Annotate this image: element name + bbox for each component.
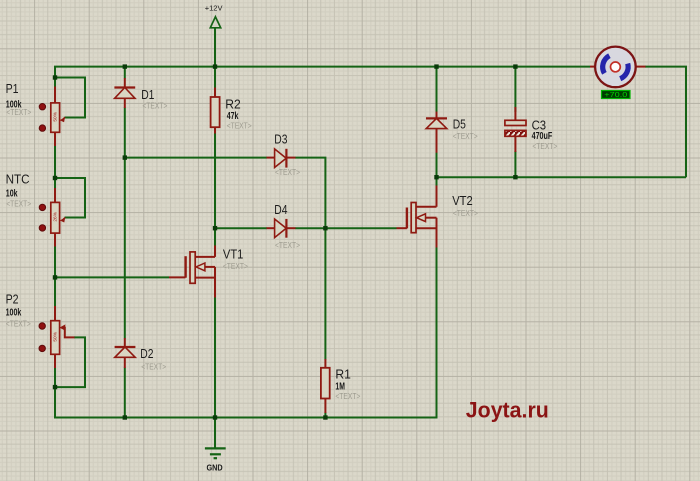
svg-text:<TEXT>: <TEXT> [275,168,300,177]
diode D2 [115,338,136,368]
wire GND stub [214,418,216,449]
wire motor right loop [645,67,686,178]
mosfet VT1 [169,246,215,298]
junction node gate (55,277.4) [53,275,57,279]
wire C3 bottom to bus2 [514,151,516,177]
wire P2 wiper loop [55,337,85,387]
wire D3 anode row [125,157,267,159]
diode D5 [426,112,447,153]
wire D4 cathode to VT2 gate [295,227,396,229]
junction node (124.8,417.5) [123,415,127,419]
svg-text:<TEXT>: <TEXT> [453,132,478,141]
junction node (215,66.6) [213,64,217,68]
junction node (55,178) [53,176,57,180]
wire ground bus [55,247,437,418]
motor speed display +70.0 [602,91,631,100]
svg-text:10k: 10k [6,187,18,199]
junction node (124.8,66.6) [123,64,127,68]
wire NTC wiper loop [55,178,85,218]
wire left rail NTC to P2 [54,246,56,307]
wire center rail R2 to VT1 drain [214,133,216,246]
junction node (515.4,177.2) [513,175,517,179]
wire +12V rail down to top bus and R2 [214,28,216,88]
junction node (325.4,417.5) [323,415,327,419]
svg-text:D5: D5 [453,117,466,131]
svg-text:VT2: VT2 [452,194,473,208]
svg-text:50%: 50% [53,111,59,121]
svg-text:1M: 1M [335,380,345,392]
ground symbol [205,418,226,473]
svg-text:50%: 50% [53,331,59,341]
junction node (124.8,157.6) [123,155,127,159]
svg-text:<TEXT>: <TEXT> [141,363,166,372]
svg-text:D4: D4 [274,203,287,217]
wire top +12V bus with left corner down to node A [55,67,590,78]
diode D3 [267,149,296,168]
wire C3 top pin [514,67,516,112]
svg-text:<TEXT>: <TEXT> [6,199,31,208]
wire VT2 drain column [436,177,438,185]
wire P1 wiper loop [55,78,85,118]
wire VT1 source to ground bus [214,298,216,418]
junction node A (55,77.5) [53,75,57,79]
wire R1 bottom to ground bus [324,413,326,418]
junction node (215,228.2) [213,226,217,230]
svg-text:P1: P1 [6,82,19,96]
wire D5 bottom to bus2 [436,153,438,178]
wire VT1 gate row [55,276,169,278]
svg-text:Joyta.ru: Joyta.ru [466,397,549,422]
svg-text:GND: GND [207,462,223,472]
svg-text:<TEXT>: <TEXT> [6,320,31,329]
svg-text:470uF: 470uF [532,130,553,142]
junction node (55,387.1) [53,385,57,389]
potentiometer P2 [39,306,75,368]
svg-text:<TEXT>: <TEXT> [532,142,557,151]
svg-text:VT1: VT1 [223,248,244,262]
diode D1 [114,78,135,108]
mosfet VT2 [397,186,437,248]
capacitor C3 [505,107,526,152]
svg-text:+70.0: +70.0 [604,92,627,99]
svg-text:D1: D1 [141,88,154,102]
svg-text:+12V: +12V [205,3,223,12]
svg-text:<TEXT>: <TEXT> [227,121,252,130]
wire D3 cathode to node over R1 [295,158,325,229]
wire D1 top pin from bus [124,67,126,79]
motor M1 [590,47,646,88]
thermistor NTC (pot symbol) [39,188,65,247]
wire D1 to D2 column [124,108,126,339]
junction node (325.4,228.2) [323,226,327,230]
wire bus2 D5/C3 bottoms [437,176,687,178]
svg-text:26%: 26% [53,211,59,221]
svg-text:100k: 100k [6,307,22,319]
wire left rail P2 to ground bus [54,368,56,419]
wire left rail P1 to NTC [54,146,56,189]
wire R1 top column [324,228,326,359]
svg-text:NTC: NTC [6,173,30,187]
wire left rail P1 section [54,78,56,87]
resistor R2 [211,88,220,134]
junction node (215,417.5) [213,415,217,419]
wire D5 top pin from bus [436,67,438,112]
wire D4 anode row from center rail [215,227,267,229]
junction node (515.4,66.6) [513,64,517,68]
svg-text:<TEXT>: <TEXT> [335,392,360,401]
potentiometer P1 [39,87,65,147]
resistor R1 [321,359,330,413]
svg-text:P2: P2 [6,293,19,307]
svg-text:<TEXT>: <TEXT> [223,262,248,271]
svg-text:<TEXT>: <TEXT> [6,108,31,117]
junction node (436.5,66.6) [434,64,438,68]
svg-text:<TEXT>: <TEXT> [142,101,167,110]
wire D2 bottom to ground bus [124,368,126,418]
svg-text:D3: D3 [274,133,287,147]
junction node (436.5,177.2) [434,175,438,179]
svg-text:D2: D2 [140,347,153,361]
svg-text:<TEXT>: <TEXT> [275,241,300,250]
svg-text:<TEXT>: <TEXT> [453,209,478,218]
diode D4 [267,219,296,238]
power +12V symbol [205,3,223,27]
